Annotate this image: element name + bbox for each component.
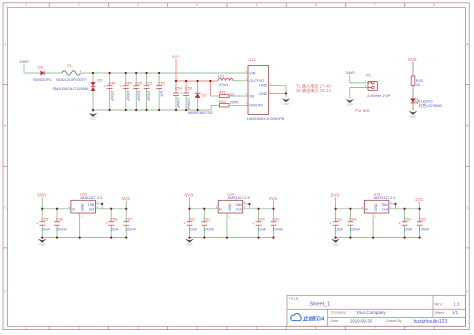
wire FB net with resistor R41 [209,81,211,96]
regulator U14 [216,192,250,218]
svg-text:Sheet_1: Sheet_1 [310,301,331,307]
svg-text:GND: GND [90,117,96,121]
svg-text:10uF: 10uF [258,227,267,231]
capacitor C48 [104,73,116,110]
svg-text:C63: C63 [335,217,342,221]
ground [345,99,354,107]
wire U13 GND pins [269,84,287,86]
capacitor C58 [105,209,119,238]
svg-text:5V0: 5V0 [172,55,179,59]
svg-text:C48: C48 [109,81,116,85]
wire output rail [389,208,420,210]
regulator U15 [68,192,102,218]
svg-text:1uF: 1uF [159,90,163,97]
svg-text:3: 3 [137,3,139,7]
svg-text:1/1: 1/1 [452,310,459,315]
svg-text:5V0: 5V0 [408,57,417,62]
capacitor C65 [417,209,430,238]
svg-text:1K: 1K [416,83,421,87]
wire R41 to FB pin [229,95,248,97]
svg-text:D6: D6 [38,66,43,70]
svg-text:5: 5 [256,3,258,7]
wire 3V3 stub [125,200,127,208]
svg-text:1: 1 [25,3,27,7]
svg-text:C52: C52 [158,81,165,85]
svg-text:MBRS360T3G: MBRS360T3G [188,111,213,115]
svg-text:hustzhoulin123: hustzhoulin123 [414,319,448,325]
wire TAB join [95,203,102,205]
ground [89,110,98,121]
junction dots block3 [334,203,420,239]
regulator U16 [362,192,396,218]
svg-text:C59: C59 [258,217,265,221]
inductor L21 [218,75,233,87]
svg-text:Drawn By:: Drawn By: [386,319,402,323]
wire TAB join [389,203,396,205]
svg-text:In: In [72,207,75,211]
resistor R40 [219,100,239,107]
svg-text:100nF: 100nF [349,227,360,231]
wire GND bottom rail of input stage [93,109,211,111]
svg-text:FB: FB [249,94,254,98]
wire 24V rail to U13 VIN [80,72,248,74]
wire 5V0 rail [176,80,218,82]
svg-text:100nF: 100nF [147,90,151,101]
svg-text:Vo 输出电压 V1.1A: Vo 输出电压 V1.1A [296,87,332,94]
diode D6 [33,66,52,82]
wire U14 gnd pin [226,213,228,238]
resistor R43 [411,76,423,87]
svg-text:Out: Out [89,207,95,211]
capacitor C54 [173,81,182,110]
capacitor C49 [120,73,132,110]
wire output rail [95,208,126,210]
svg-text:100nF: 100nF [136,90,140,101]
svg-text:OUTPUT: OUTPUT [249,79,265,83]
svg-text:1: 1 [25,326,27,330]
svg-text:Your Company: Your Company [356,310,386,315]
svg-text:+: + [253,222,255,226]
wire TAB join [243,203,250,205]
svg-text:L21: L21 [218,75,224,79]
ground [185,238,194,247]
svg-text:8: 8 [433,3,435,7]
wire R40 to ON/OFF pin [229,104,248,106]
svg-text:GND: GND [374,203,378,211]
svg-text:24V0: 24V0 [346,70,356,75]
wire gnd rail block2 [190,237,274,239]
svg-text:GND: GND [347,103,353,107]
svg-text:+: + [180,92,182,96]
wire 2V5 stub [273,200,275,208]
wire U16 gnd pin [372,213,374,238]
svg-text:+: + [399,222,401,226]
svg-text:VIN: VIN [249,71,255,75]
ground [409,111,418,119]
svg-text:200K: 200K [230,100,239,104]
svg-text:GND: GND [333,242,339,246]
wire diode to fuse [44,72,62,74]
svg-text:GND: GND [259,92,268,96]
svg-text:5V0: 5V0 [185,193,194,199]
svg-text:10uF: 10uF [110,227,119,231]
svg-text:AMS1117-3.3: AMS1117-3.3 [80,196,102,200]
svg-text:Out: Out [382,207,388,211]
junction dots block1 [41,203,127,239]
svg-text:24V0: 24V0 [20,59,30,64]
svg-text:+: + [330,222,332,226]
svg-text:+: + [105,222,107,226]
wire input rail [41,197,43,209]
wire 24V0 to P6 [349,75,351,83]
capacitor C56 [54,209,67,238]
svg-text:2: 2 [78,326,80,330]
svg-text:4: 4 [196,326,198,330]
svg-text:GND: GND [283,102,289,106]
svg-text:GND: GND [228,203,232,211]
svg-text:2019-09-25: 2019-09-25 [350,319,373,324]
svg-text:1000uF: 1000uF [186,98,190,112]
svg-text:GND: GND [187,242,193,246]
svg-text:SMAJ06CA-C113068: SMAJ06CA-C113068 [53,87,89,91]
svg-text:B: B [466,124,468,128]
svg-text:4: 4 [196,3,198,7]
capacitor C61 [201,209,214,238]
svg-text:8: 8 [433,326,435,330]
svg-text:D7: D7 [202,93,207,97]
wire U15 gnd pin [79,213,81,238]
wire LED to gnd [412,103,414,111]
svg-text:10uF: 10uF [404,227,413,231]
svg-text:7: 7 [374,3,376,7]
svg-text:C60: C60 [273,217,280,221]
svg-text:100nF: 100nF [419,227,430,231]
svg-text:100nF: 100nF [203,227,214,231]
svg-text:LM2596SX-5.0/NOPB: LM2596SX-5.0/NOPB [247,117,285,121]
capacitor C51 [144,73,153,110]
svg-text:C66: C66 [404,217,411,221]
svg-text:+: + [36,222,38,226]
svg-text:C61: C61 [203,217,210,221]
TVS diode D5 [53,73,102,110]
svg-text:1V2: 1V2 [415,197,424,202]
svg-text:P6: P6 [366,73,371,77]
svg-text:100nF: 100nF [56,227,67,231]
svg-text:C57: C57 [125,217,132,221]
svg-text:GND: GND [410,115,416,119]
wire 5V0 to R43 [412,62,414,76]
svg-text:R40: R40 [219,100,226,104]
wire gnd rail block3 [336,237,420,239]
svg-text:Company:: Company: [331,311,347,315]
svg-text:100nF: 100nF [273,227,284,231]
wire 1V2 stub [419,202,421,209]
svg-text:2: 2 [78,3,80,7]
svg-text:47uH: 47uH [219,83,228,87]
capacitor C53 [180,81,192,111]
ground [282,98,291,106]
svg-text:2.54mm 1*2P: 2.54mm 1*2P [367,94,390,98]
svg-text:C58: C58 [110,217,117,221]
note red annotation [296,83,332,94]
svg-text:2V5: 2V5 [269,196,278,201]
junction dots 5V0 rail [175,80,212,82]
svg-text:+: + [120,84,122,88]
capacitor C60 [271,209,284,238]
svg-text:10uF: 10uF [189,227,198,231]
svg-text:SMD1210P200TF: SMD1210P200TF [56,78,87,82]
svg-text:C65: C65 [419,217,426,221]
LED LED20 [410,98,442,107]
diode D7 [188,81,213,115]
svg-text:立创EDA: 立创EDA [303,315,325,322]
svg-text:+: + [184,222,186,226]
svg-text:C53: C53 [185,87,192,91]
node 24V0 net flag [20,59,30,64]
capacitor C52 [156,73,165,110]
capacitor C64 [348,209,361,238]
svg-text:SM4007PL: SM4007PL [33,78,52,82]
ground [331,238,340,247]
svg-text:U13: U13 [249,58,256,62]
junction dots gnd rail [92,109,199,111]
svg-text:In: In [365,207,368,211]
svg-text:TITLE:: TITLE: [289,297,300,301]
capacitor C59 [253,209,267,238]
resistor R41 [219,91,234,98]
svg-text:REV:: REV: [435,302,443,306]
svg-text:C50: C50 [135,81,142,85]
svg-text:7: 7 [374,326,376,330]
junction dots block2 [188,203,274,239]
ground [38,238,47,247]
svg-text:100uF: 100uF [126,90,130,101]
svg-text:C55: C55 [41,217,48,221]
wire 24V input to diode [24,72,40,74]
capacitor C57 [123,209,136,238]
wire 24V0 stub [23,64,25,73]
capacitor C63 [330,209,344,238]
svg-text:ON/OFF: ON/OFF [249,104,264,108]
svg-text:GND: GND [259,84,268,88]
svg-text:100uF: 100uF [110,90,114,101]
capacitor C66 [399,209,413,238]
wire input rail [335,197,337,209]
svg-text:AMS1117-1.2: AMS1117-1.2 [374,196,396,200]
svg-text:6: 6 [315,326,317,330]
svg-text:100uF: 100uF [176,98,180,109]
svg-text:GND: GND [39,242,45,246]
svg-text:F1: F1 [68,64,72,68]
svg-text:C51: C51 [145,81,152,85]
svg-text:GND: GND [81,203,85,211]
svg-text:C54: C54 [175,87,182,91]
svg-text:3: 3 [137,326,139,330]
wire gnd rail block1 [42,237,126,239]
svg-text:5V0: 5V0 [331,193,340,199]
svg-text:+: + [104,84,106,88]
svg-text:6: 6 [315,3,317,7]
svg-text:For test: For test [355,108,370,113]
svg-text:10uF: 10uF [41,227,50,231]
wire output rail [243,208,274,210]
svg-text:C49: C49 [125,81,132,85]
svg-text:Sheet:: Sheet: [435,311,445,315]
svg-text:C64: C64 [349,217,356,221]
svg-text:100nF: 100nF [125,227,136,231]
svg-text:B: B [4,124,6,128]
junction dot U13 gnd [285,92,287,94]
wire ON/OFF net with resistor R40 [210,105,212,110]
svg-text:1.0: 1.0 [454,301,461,306]
capacitor C62 [184,209,198,238]
wire input rail [189,197,191,209]
svg-text:5V0: 5V0 [37,193,46,199]
capacitor C55 [36,209,50,238]
logo [291,314,325,323]
wire 5V0 stub [175,59,177,81]
svg-text:AMS1117-2.5: AMS1117-2.5 [228,196,250,200]
wire gnd to P6 [349,88,351,99]
svg-text:Out: Out [236,207,242,211]
title block [287,295,466,326]
svg-text:D5: D5 [97,79,102,83]
svg-text:In: In [219,207,222,211]
wire R43 to LED20 [412,85,414,98]
svg-text:C56: C56 [56,217,63,221]
wire L21 to U13 OUTPUT [233,80,248,82]
svg-text:3V3: 3V3 [121,196,130,201]
svg-text:红色LEDSMD: 红色LEDSMD [419,103,443,108]
svg-text:Date:: Date: [331,319,339,323]
junction dots input rail [92,72,160,74]
svg-text:10uF: 10uF [335,227,344,231]
fuse F1 [56,64,87,82]
capacitor C50 [133,73,142,110]
svg-text:R41: R41 [219,91,226,95]
svg-text:5: 5 [256,326,258,330]
connector P6 [365,73,391,98]
svg-text:C62: C62 [189,217,196,221]
op-amp U13 buck regulator [246,58,285,121]
